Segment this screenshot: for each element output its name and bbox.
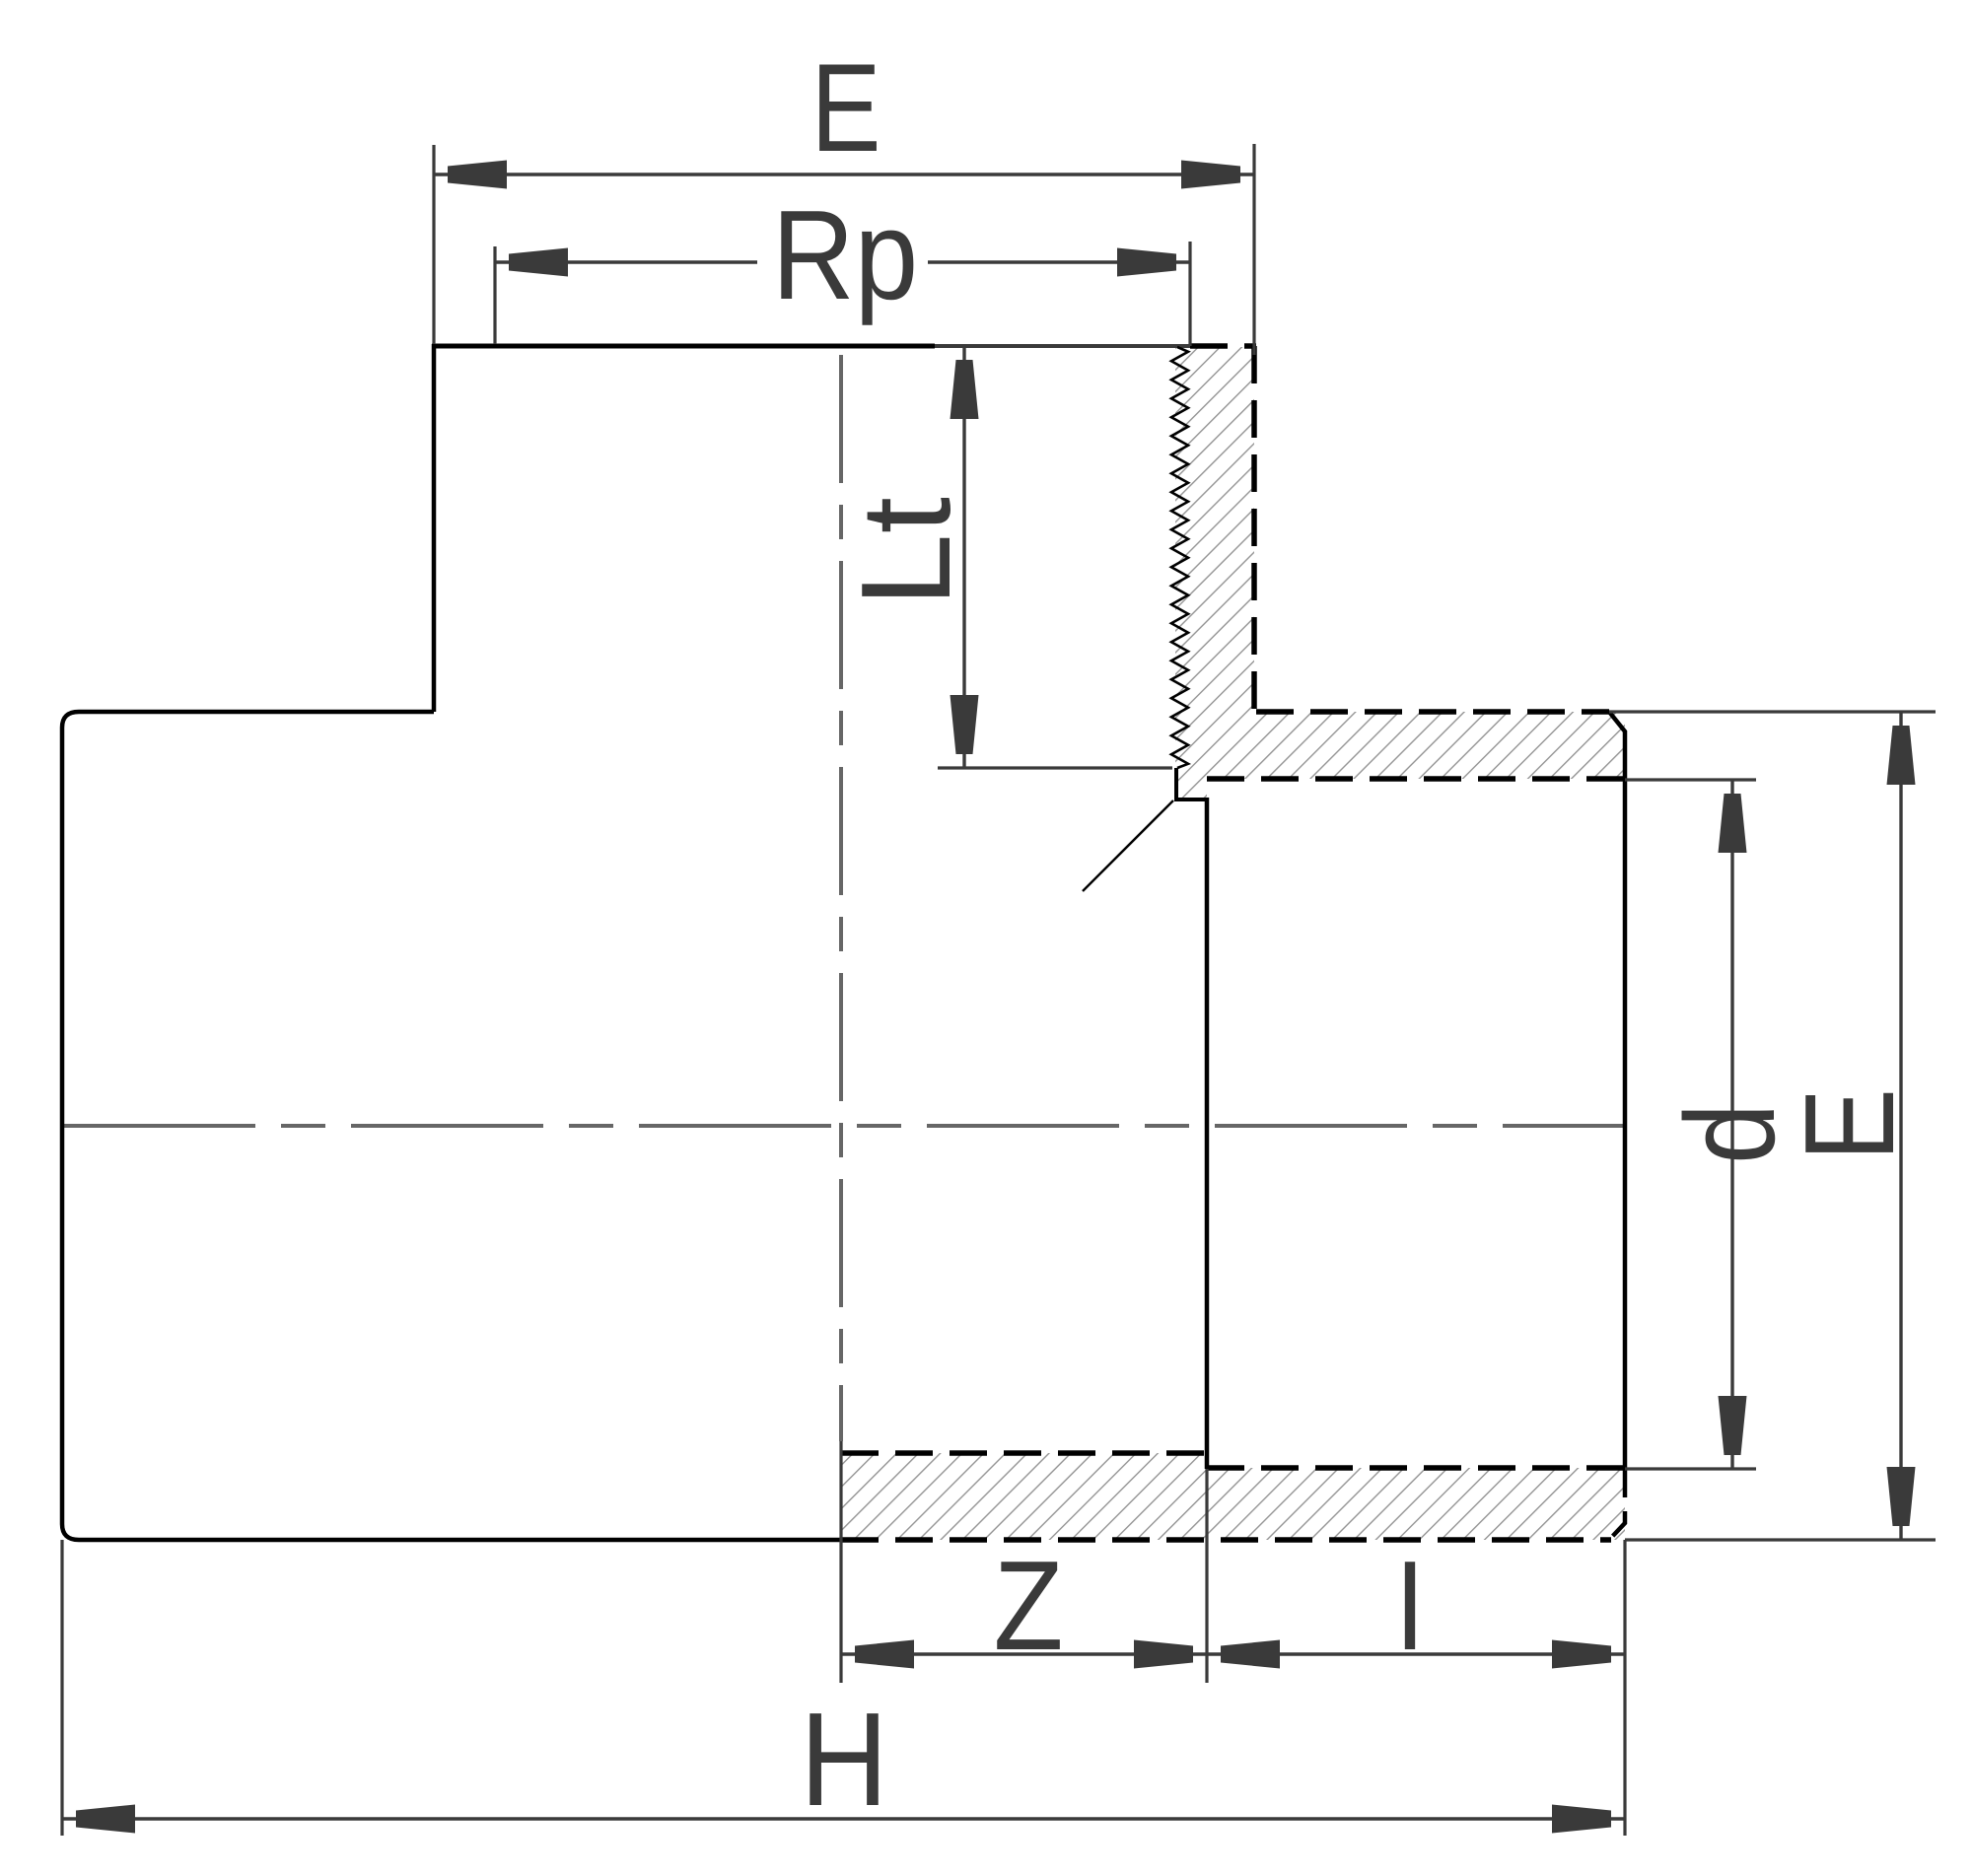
hatch fill: bottom wall left of socket step xyxy=(841,1453,1207,1540)
dimension Z and I: shared middle extension line xyxy=(1205,1469,1208,1683)
thread bottom step horizontal xyxy=(1174,798,1207,801)
dimension Rp: right extension line xyxy=(1188,242,1191,346)
dimension d: bottom extension line xyxy=(1625,1467,1756,1470)
body outline: branch top edge dashed over thread band xyxy=(1190,343,1256,349)
dimension Lt: dimension line xyxy=(962,346,965,768)
dimension Lt: bottom arrow xyxy=(951,695,979,754)
dimension E right: top arrow xyxy=(1887,726,1916,785)
dashed band edge: right socket outer top xyxy=(1256,709,1609,715)
dimension Z: left arrow xyxy=(855,1640,914,1669)
thread bottom step vertical xyxy=(1174,768,1178,799)
dimension E top: dimension line xyxy=(434,173,1254,175)
dashed band edge: bottom outer edge xyxy=(841,1537,1611,1543)
dimension E top: right extension line xyxy=(1252,144,1255,355)
dimension E top: left extension line xyxy=(432,145,435,344)
dimension Z: dimension line xyxy=(841,1652,1207,1655)
centerline horizontal xyxy=(63,1124,1627,1128)
dimension I: left arrow xyxy=(1221,1640,1280,1669)
dimension Rp: label Rp xyxy=(772,184,918,326)
dimension E right: top extension line xyxy=(1609,710,1936,713)
dashed band edge: right socket bore top xyxy=(1207,776,1623,782)
body outline: branch top edge (solid black part) xyxy=(432,344,935,349)
dimension Lt: label Lt rotated xyxy=(834,497,976,607)
dimension E right: label E rotated xyxy=(1779,1088,1921,1161)
dimension Rp: left extension line xyxy=(493,246,496,344)
hatch fill: bottom wall right of socket step xyxy=(1207,1468,1625,1540)
svg-text:E: E xyxy=(1779,1088,1921,1161)
svg-text:Lt: Lt xyxy=(834,497,976,607)
dashed band edge: branch right side of thread band xyxy=(1251,346,1257,712)
dimension d: dimension line xyxy=(1730,780,1733,1469)
centerline vertical of branch xyxy=(839,355,843,1441)
thread zigzag line Rp xyxy=(1171,347,1188,768)
dashed band edge: bottom wall top left part xyxy=(841,1450,1207,1456)
dimension I: dimension line xyxy=(1207,1652,1625,1655)
dashed band edge: bottom wall top right part xyxy=(1207,1465,1623,1471)
body outline: branch top edge (gray part over thread) xyxy=(935,344,1190,348)
chamfer leader diagonal xyxy=(1083,800,1173,891)
dimension E right: dimension line xyxy=(1899,712,1902,1540)
dimension E top: left arrow xyxy=(448,161,507,189)
dimension H: left arrow xyxy=(76,1805,135,1834)
dimension Z: right arrow xyxy=(1134,1640,1193,1669)
dimension I: right extension line xyxy=(1623,1540,1626,1836)
dimension I: right arrow xyxy=(1552,1640,1611,1669)
dimension Lt: bottom extension line (socket bottom) xyxy=(938,766,1172,769)
dimension d: label d rotated xyxy=(1659,1103,1801,1164)
dimension E top: right arrow xyxy=(1181,161,1240,189)
svg-text:E: E xyxy=(810,37,880,177)
dimension Lt: top arrow xyxy=(951,360,979,419)
body outline: left shoulder, left face, bottom (rounded corners) xyxy=(62,712,841,1540)
dimension d: top arrow xyxy=(1719,794,1747,853)
dimension Rp: dimension line left segment xyxy=(495,260,757,263)
dimension E right: bottom extension line xyxy=(1625,1538,1936,1541)
svg-text:Z: Z xyxy=(994,1535,1064,1677)
dimension H: left extension line xyxy=(60,1540,63,1836)
dimension d: top extension line xyxy=(1625,778,1756,781)
dimension H: dimension line xyxy=(62,1817,1625,1820)
dimension Z: left extension line xyxy=(839,1441,842,1683)
dimension Rp: right arrow xyxy=(1117,248,1176,277)
dimension H: label H xyxy=(800,1686,888,1834)
svg-text:H: H xyxy=(800,1686,888,1834)
hatch fill: vertical thread band of branch xyxy=(1175,347,1254,712)
hatch fill: thread runout corner xyxy=(1175,712,1207,798)
right socket bore bottom wall vertical xyxy=(1205,798,1210,1469)
body outline: right end face dashed through bottom band + chamfer xyxy=(1609,1468,1625,1540)
body outline: branch left edge xyxy=(432,344,437,712)
dimension E top: label E xyxy=(810,37,880,177)
body outline: right end face xyxy=(1609,712,1625,1468)
hatch fill: right socket upper wall xyxy=(1207,712,1625,779)
dimension Rp: dimension line right segment xyxy=(928,260,1190,263)
dimension E right: bottom arrow xyxy=(1887,1467,1916,1526)
dimension Z: label Z xyxy=(994,1535,1064,1677)
svg-text:Rp: Rp xyxy=(772,184,918,326)
dimension Rp: left arrow xyxy=(509,248,568,277)
dimension H: right arrow xyxy=(1552,1805,1611,1834)
dimension I: label I xyxy=(1395,1535,1426,1677)
dimension d: bottom arrow xyxy=(1719,1396,1747,1455)
svg-text:I: I xyxy=(1395,1535,1426,1677)
